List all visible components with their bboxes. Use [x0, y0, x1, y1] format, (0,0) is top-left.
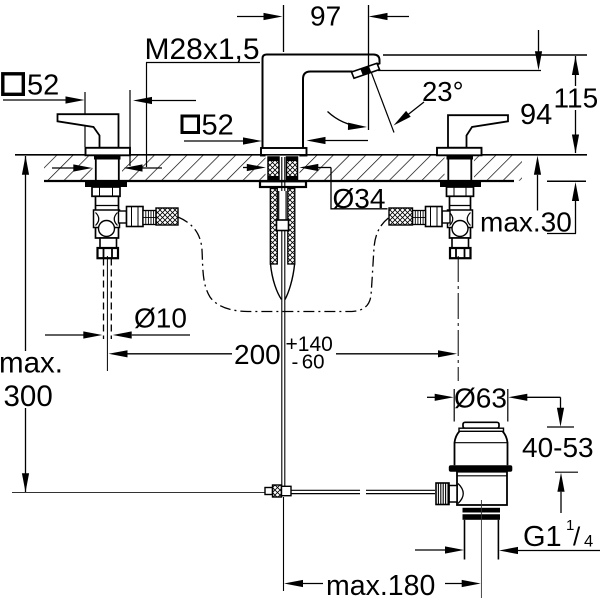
M28x1,5 leader line — [146, 63, 148, 168]
countertop hole right — [445, 155, 475, 181]
right valve outlet hex — [426, 207, 451, 227]
max180 right arrow — [445, 580, 481, 587]
spout outlet reference line — [378, 70, 541, 72]
dimension 97 right arrow — [369, 13, 410, 20]
right escutcheon — [437, 148, 482, 156]
diameter 34 leader — [331, 168, 388, 209]
svg-text:115: 115 — [554, 83, 599, 114]
svg-text:max.: max. — [0, 347, 63, 380]
svg-text:Ø34: Ø34 — [333, 183, 386, 214]
dimension 97 extension line left — [283, 5, 285, 52]
diameter 34 arrow left — [243, 164, 266, 171]
right braided hose — [389, 208, 413, 225]
right valve center line — [457, 256, 459, 381]
faucet aerator — [352, 63, 380, 78]
right valve locknut band — [440, 181, 481, 187]
countertop top surface line — [15, 154, 587, 156]
svg-text:max.180: max.180 — [326, 570, 435, 600]
svg-text:max.30: max.30 — [480, 207, 572, 238]
max30 bottom arrow — [572, 182, 579, 234]
pop-up rod channel — [279, 191, 286, 220]
left valve compression nut — [98, 248, 119, 258]
diameter 63 arrow left — [427, 394, 454, 401]
square52 center arrow to faucet left edge — [184, 137, 262, 144]
dimension 40-53 bottom arrow — [557, 473, 564, 513]
drain knob neck — [449, 484, 463, 504]
countertop hatching — [44, 156, 522, 181]
horizontal actuating rod left part — [291, 490, 360, 493]
countertop hole left — [93, 155, 123, 181]
diameter 10 arrow left — [45, 331, 102, 338]
diameter 10 arrow right — [113, 331, 190, 338]
diameter 63 extension right — [507, 389, 509, 422]
23 degree leader arrow — [394, 102, 425, 126]
countertop bottom line — [44, 180, 514, 182]
dimension 97 extension line right / 23deg reference — [368, 5, 370, 130]
svg-text:M28x1,5: M28x1,5 — [145, 33, 260, 66]
G1 1/4 label — [523, 517, 593, 553]
right shank wall right — [470, 156, 472, 181]
left hose ribbed fitting — [143, 211, 156, 225]
drain lower body — [457, 472, 507, 505]
G1 1/4 arrow left — [415, 546, 464, 553]
pop-up rod upper — [282, 157, 285, 191]
left escutcheon — [86, 148, 131, 156]
dimension 115 up arrow — [572, 56, 579, 75]
svg-text:- 60: - 60 — [292, 351, 325, 374]
drain flange — [449, 465, 513, 471]
dimension 115 line — [575, 56, 577, 86]
svg-text:97: 97 — [310, 1, 341, 32]
faucet body outline — [263, 55, 380, 149]
square52 left dimension arrow left — [3, 96, 85, 103]
spout top reference line — [383, 54, 587, 56]
horizontal actuating rod right part — [366, 490, 435, 493]
dimension 97 left arrow — [237, 13, 283, 20]
svg-text:40-53: 40-53 — [522, 432, 594, 463]
square52 left extension line right — [129, 90, 131, 166]
pop-up housing right wall — [288, 189, 295, 265]
right shank top band — [447, 156, 474, 160]
max30 leader shelf — [547, 233, 576, 235]
rod coupler — [265, 485, 291, 497]
left valve nut — [92, 187, 120, 196]
svg-text:52: 52 — [202, 110, 234, 142]
svg-text:/: / — [573, 522, 581, 552]
max180 left extension line — [283, 497, 285, 591]
right shank wall left — [447, 156, 449, 181]
faucet base plate — [261, 148, 307, 156]
left valve bottom nut — [100, 238, 117, 248]
23 degree arc — [328, 112, 368, 131]
right hose ribbed fitting — [413, 211, 426, 225]
left hole arrow left — [52, 164, 92, 171]
left hole arrow right (M28 leader target) — [124, 164, 163, 171]
left shank wall right — [118, 156, 120, 181]
faucet spout underside — [303, 72, 353, 149]
left shank top band — [94, 156, 121, 160]
pop-down tube dashed left wall — [103, 259, 105, 340]
drain center line — [480, 500, 482, 598]
svg-text:Ø10: Ø10 — [134, 303, 187, 334]
center flange — [260, 181, 306, 187]
right valve compression nut — [450, 248, 471, 258]
svg-text:Ø63: Ø63 — [454, 383, 507, 414]
max300 dimension line — [25, 156, 27, 351]
left valve outlet hex — [119, 207, 144, 227]
svg-text:23°: 23° — [422, 76, 464, 107]
drain tail ring — [463, 508, 501, 520]
center shank thread block left — [268, 157, 279, 181]
drain tailpipe left — [464, 520, 466, 560]
dimension 40-53 top reference line — [547, 426, 574, 428]
diameter 63 extension left — [453, 389, 455, 422]
square52 left symbol — [3, 74, 24, 95]
M28x1,5 underline — [146, 62, 260, 64]
square52 center symbol — [182, 116, 199, 133]
max300 down arrow — [22, 473, 29, 492]
left valve center line — [106, 256, 108, 371]
dimension 200 right arrow — [336, 350, 457, 357]
drain tailpipe right — [497, 520, 499, 560]
left lever handle — [58, 114, 119, 148]
G1 1/4 arrow right — [499, 547, 600, 554]
svg-text:200: 200 — [234, 339, 281, 370]
pop-up housing left wall — [270, 189, 277, 265]
dimension 94 top arrow — [535, 30, 542, 70]
drain plug cap — [463, 422, 499, 428]
right valve nut — [447, 187, 474, 196]
left valve locknut band — [85, 181, 127, 187]
dimension 200 left arrow — [109, 350, 233, 357]
dimension 40-53 bottom reference line — [555, 471, 578, 473]
svg-text:G1: G1 — [523, 521, 562, 553]
dimension 94 bottom arrow — [534, 156, 541, 211]
diameter 63 arrow right — [508, 394, 560, 401]
right valve body — [448, 196, 473, 238]
housing taper left — [271, 264, 282, 300]
drain level reference line — [12, 492, 265, 494]
svg-text:300: 300 — [4, 380, 53, 413]
left shank wall left — [95, 156, 97, 181]
square52 center arrow to faucet right edge — [307, 137, 369, 144]
square52 left dimension arrow right — [133, 97, 196, 104]
left braided hose — [156, 208, 178, 225]
pop-down tube dashed right wall — [110, 259, 112, 340]
svg-text:94: 94 — [520, 99, 552, 131]
hose sweep dash-dot curve — [178, 217, 389, 312]
countertop bottom reference right — [547, 180, 586, 182]
left valve body — [94, 196, 120, 238]
right lever handle — [448, 115, 508, 148]
drain upper body trumpet — [455, 431, 508, 465]
drain knurled knob — [436, 483, 449, 505]
water stream line — [372, 73, 395, 133]
right valve bottom nut — [452, 238, 469, 248]
diameter 34 arrow right — [299, 164, 331, 171]
countertop hole center — [266, 155, 300, 181]
pop-up rod — [282, 231, 285, 491]
max180 left arrow — [284, 580, 323, 587]
svg-text:4: 4 — [584, 533, 593, 551]
center shank thread block right — [287, 157, 298, 181]
square52 left extension line left — [84, 92, 86, 147]
pop-up rod collar — [277, 220, 289, 231]
max300 up arrow — [22, 156, 29, 175]
housing taper right — [285, 264, 295, 300]
svg-text:52: 52 — [27, 70, 59, 102]
dimension 40-53 top arrow — [557, 397, 564, 427]
dimension 115 down arrow — [572, 135, 579, 154]
drain cap plate — [459, 428, 504, 431]
